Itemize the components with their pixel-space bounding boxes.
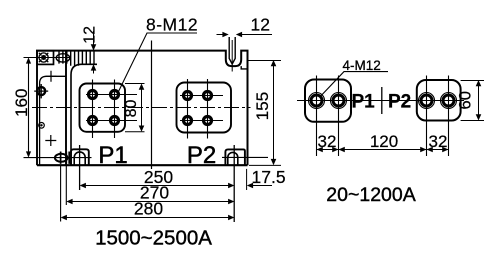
hole P1 top-left [89,91,97,99]
hole P2 bottom-left [184,117,192,125]
hole left-block 2 [331,93,347,109]
hole right-block 1 [419,93,435,109]
svg-text:P2: P2 [187,142,216,169]
node body bottom edge [37,164,248,166]
hole P1 bottom-left [89,117,97,125]
terminal pad P1 [80,84,126,132]
hole right-block 2 [441,93,457,109]
label 8-M12 leader [119,33,198,92]
wire right-block crosshairs [427,76,449,157]
node flange inner line [40,76,66,165]
bolt top side-view [56,51,94,66]
node cross marker upper [46,71,57,82]
node main body outline [36,51,248,166]
dim 12 top-right [217,32,273,38]
node body left ledge [71,64,97,165]
svg-text:17.5: 17.5 [252,167,286,187]
dim 155 [248,60,282,165]
svg-text:4-M12: 4-M12 [343,58,381,73]
wire P1 crosshairs [86,80,137,139]
terminal block right [417,80,461,121]
dim 160 [24,57,92,157]
node slot bottom-right arch [225,149,245,165]
dim 80 [125,84,145,132]
svg-text:80: 80 [123,100,140,118]
bolt bottom stud lines [61,165,67,221]
svg-text:155: 155 [253,92,272,120]
svg-text:20~1200A: 20~1200A [326,184,415,206]
hole P1 bottom-right [111,117,119,125]
terminal block left [305,80,351,122]
wire P2 crosshairs [180,79,223,139]
svg-text:P1: P1 [352,92,376,113]
svg-text:32: 32 [429,132,448,151]
node slot bottom-left arch [71,149,89,165]
wire vertical centerline [151,41,153,170]
bolt bottom side-view [55,152,69,164]
label 4-M12 leader [321,72,388,96]
svg-text:60: 60 [457,91,475,109]
node body step top-right [241,66,247,69]
svg-text:32: 32 [318,132,337,151]
dim 17.5 [247,169,272,190]
node flange outer [37,51,66,166]
dim 32 left [317,147,339,153]
wire horizontal centerline [32,107,251,109]
hole P2 top-right [204,92,212,100]
svg-text:280: 280 [134,199,163,219]
stud top-right [229,37,235,72]
dim 32 right [427,147,449,153]
dim 120 [339,147,427,153]
svg-text:1500~2500A: 1500~2500A [95,227,212,250]
svg-text:12: 12 [82,26,99,44]
dim 270 [66,199,234,205]
hole left-block 1 [309,93,325,109]
terminal pad P2 [177,83,232,133]
node flange top square [37,51,54,65]
svg-text:12: 12 [251,15,270,35]
svg-text:P1: P1 [98,142,127,169]
hole P1 top-right [111,91,119,99]
hole P2 bottom-right [204,117,212,125]
svg-text:P2: P2 [388,92,411,113]
screw target middle [34,84,48,98]
svg-text:160: 160 [12,89,31,117]
node cross marker lower [45,135,56,146]
node small hole [39,123,45,129]
dim 250 [80,145,235,222]
dim 12 left [91,31,97,74]
dim 280 [61,215,235,221]
wire centerline right [297,100,464,102]
hole P2 top-left [184,92,192,100]
svg-text:8-M12: 8-M12 [146,15,198,35]
screw head top: ring, dot, diagonal ticks [24,53,71,62]
wire left-block crosshairs [317,76,339,157]
svg-text:120: 120 [370,132,398,151]
node center tick [381,87,383,114]
dim 60 [461,80,484,121]
